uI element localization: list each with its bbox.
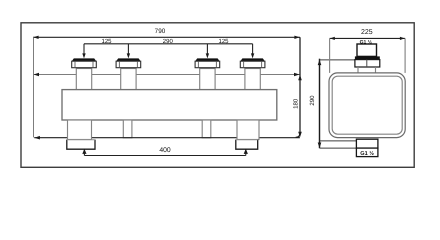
svg-text:G1 ½: G1 ½ bbox=[360, 151, 374, 157]
top stub 1 pipe bbox=[76, 69, 91, 91]
svg-text:290: 290 bbox=[163, 38, 174, 45]
top stub 1 nut bbox=[72, 58, 97, 67]
side view neck bbox=[357, 67, 359, 73]
extension line left (x33) bbox=[33, 37, 35, 137]
svg-text:790: 790 bbox=[155, 28, 166, 35]
svg-text:290: 290 bbox=[309, 95, 316, 106]
svg-text:225: 225 bbox=[361, 29, 373, 36]
side view bottom stub bbox=[356, 139, 378, 148]
dimension line 180 (vertical, x300) bbox=[296, 37, 300, 137]
side view top nut bbox=[355, 60, 380, 67]
stem stub3 bbox=[206, 44, 208, 56]
bottom reference line (y137.7) bbox=[34, 137, 300, 139]
top stub 3 nut bbox=[195, 58, 220, 67]
svg-text:125: 125 bbox=[101, 38, 112, 45]
foot plate left bbox=[67, 140, 95, 150]
side view body outer bbox=[329, 73, 405, 138]
dimension 790 line bbox=[33, 36, 300, 38]
foot pipe right bbox=[237, 120, 259, 140]
stem stub2 bbox=[127, 44, 129, 56]
projection line bottom to side view (stub bottom) bbox=[320, 147, 357, 149]
stem stub1 bbox=[83, 44, 85, 56]
stem stub4 bbox=[252, 44, 254, 56]
projection line bottom to side view (stub top) bbox=[320, 140, 357, 142]
dimension row 125/290/125 line bbox=[84, 43, 253, 45]
svg-text:125: 125 bbox=[218, 38, 229, 45]
svg-text:180: 180 bbox=[292, 98, 299, 109]
drawing outer frame bbox=[21, 23, 414, 168]
dimension 225 bbox=[330, 37, 406, 39]
side view top flange bar bbox=[355, 56, 380, 59]
projection line top to side view bbox=[320, 59, 355, 61]
top stub 3 pipe bbox=[200, 69, 215, 91]
top stub 2 pipe bbox=[121, 69, 136, 91]
side view bottom label box G1 1/2 bbox=[356, 148, 378, 157]
manifold beam bbox=[62, 90, 277, 120]
foot plate right bbox=[236, 140, 258, 150]
lower stub 2 bbox=[123, 120, 132, 138]
reference line top (y74.6) bbox=[33, 74, 300, 76]
top stub 2 nut bbox=[116, 58, 141, 67]
svg-text:400: 400 bbox=[159, 147, 171, 154]
dimension line 290 (vertical, x318.6) bbox=[319, 59, 321, 149]
foot pipe left bbox=[68, 120, 92, 140]
top stub 4 pipe bbox=[245, 69, 260, 91]
dimension 400 bbox=[84, 155, 245, 157]
top stub 4 nut bbox=[240, 58, 265, 67]
side view body inner bbox=[332, 76, 402, 134]
lower stub 3 bbox=[202, 120, 211, 138]
side view top stub pipe bbox=[357, 44, 377, 56]
